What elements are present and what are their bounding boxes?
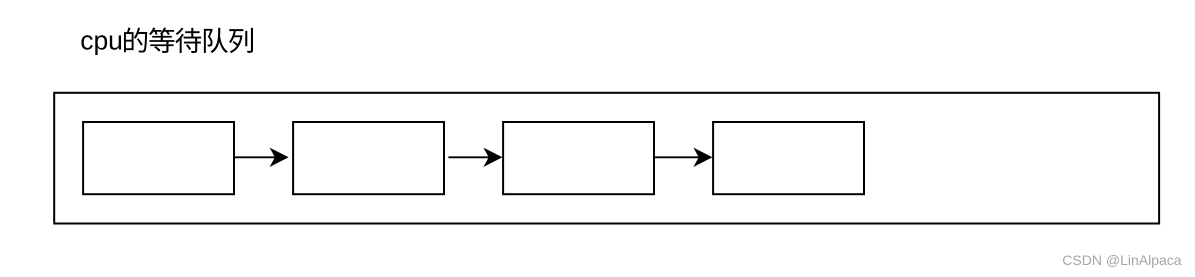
queue node box 4 (713, 122, 864, 194)
arrow 1 wire (shaft) (234, 156, 276, 158)
queue node box 2 (293, 122, 444, 194)
queue node box 3 (503, 122, 654, 194)
title text: cpu的等待队列 (80, 26, 253, 56)
arrow 3 head (693, 148, 712, 167)
arrow 2 wire (shaft) (448, 156, 490, 158)
svg-text:cpu: cpu (80, 26, 123, 56)
queue container rectangle (54, 93, 1159, 224)
arrow 2 head (483, 148, 502, 167)
arrow 3 wire (shaft) (654, 156, 700, 158)
queue node box 1 (83, 122, 234, 194)
svg-text:CSDN @LinAlpaca: CSDN @LinAlpaca (1062, 252, 1181, 268)
arrow 1 head (270, 148, 289, 167)
